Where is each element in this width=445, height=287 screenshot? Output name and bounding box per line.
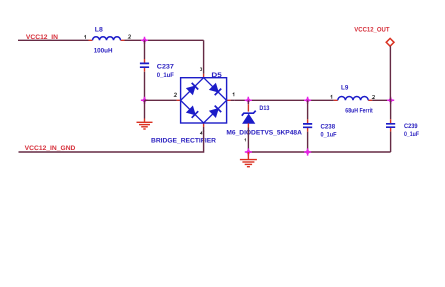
ground: [240, 152, 257, 167]
junction: [245, 148, 252, 155]
wire: [144, 100, 146, 118]
diode D5 bottom-right: [210, 106, 221, 117]
port VCC12_OUT: [386, 38, 394, 46]
wire: [203, 40, 205, 70]
wire: [144, 40, 146, 59]
svg-text:100uH: 100uH: [94, 47, 113, 54]
svg-text:D13: D13: [259, 105, 269, 112]
svg-text:D5: D5: [211, 72, 222, 79]
svg-text:VCC12_IN_GND: VCC12_IN_GND: [25, 145, 76, 152]
svg-text:C237: C237: [157, 64, 175, 71]
capacitor C239: [386, 100, 419, 152]
svg-text:0_1uF: 0_1uF: [157, 72, 174, 79]
capacitor C237: [140, 59, 174, 79]
junction: [304, 97, 311, 104]
svg-text:0_1uF: 0_1uF: [321, 132, 337, 139]
junction: [304, 148, 311, 155]
svg-text:BRIDGE_RECTIFIER: BRIDGE_RECTIFIER: [151, 138, 216, 145]
diode D5 top-right: [210, 84, 221, 95]
diode D13: [226, 100, 302, 141]
svg-text:M6_DIODETVS_5KP48A: M6_DIODETVS_5KP48A: [226, 129, 302, 136]
wire: [372, 99, 390, 101]
diode D5 bottom-left: [187, 107, 198, 118]
junction: [141, 37, 148, 44]
inductor L9: [331, 85, 375, 115]
svg-text:C239: C239: [404, 123, 418, 130]
wire: [247, 128, 249, 153]
svg-text:0_1uF: 0_1uF: [404, 131, 419, 138]
svg-text:L9: L9: [341, 85, 349, 92]
wire: [125, 39, 204, 41]
wire: [18, 39, 89, 41]
svg-text:68uH Ferrit: 68uH Ferrit: [345, 107, 373, 114]
bridge rectifier D5: [145, 68, 235, 145]
junction: [245, 97, 252, 104]
ground: [137, 119, 153, 130]
wire: [389, 46, 391, 100]
junction: [387, 97, 394, 104]
capacitor C238: [303, 100, 337, 152]
svg-text:VCC12_OUT: VCC12_OUT: [354, 27, 389, 34]
svg-text:L8: L8: [95, 27, 103, 34]
junction: [141, 97, 148, 104]
wire: [19, 131, 204, 152]
wire: [144, 72, 146, 100]
inductor L8: [84, 27, 130, 55]
diode D5 top-left: [187, 83, 198, 94]
wire: [248, 151, 390, 153]
wire: [234, 99, 333, 101]
svg-text:C238: C238: [321, 124, 336, 131]
